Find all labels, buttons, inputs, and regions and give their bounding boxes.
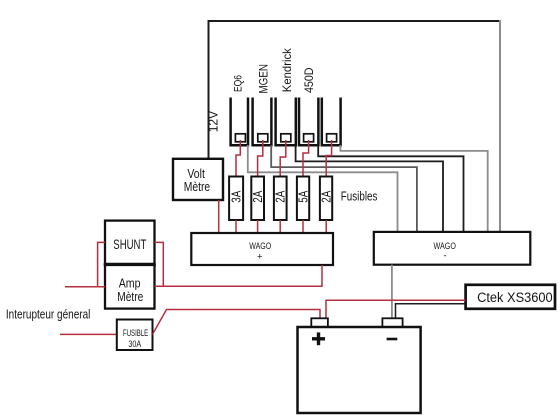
svg-text:Fusibles: Fusibles [341, 188, 378, 203]
wire: J3 return to WAGO- [296, 145, 443, 232]
svg-text:MGEN: MGEN [258, 64, 270, 94]
fuse F2 2A [250, 177, 265, 221]
wire: J5 feed to fuse F5 (red) [326, 140, 331, 177]
wire: ammeter/shunt right to WAGO+ (red) [155, 242, 323, 286]
wire: J5 return to WAGO- [340, 145, 487, 232]
socket J5 12V outlet [322, 98, 341, 146]
svg-text:EQ6: EQ6 [233, 75, 245, 92]
svg-text:Volt: Volt [187, 167, 205, 181]
svg-text:Kendrick: Kendrick [280, 47, 294, 92]
svg-text:Mètre: Mètre [117, 290, 143, 304]
svg-text:2A: 2A [273, 190, 288, 202]
fuse F3 2A [273, 177, 288, 221]
fuse F5 2A [319, 177, 334, 221]
wire: main switch feed (red) [60, 333, 117, 335]
svg-text:SHUNT: SHUNT [113, 237, 146, 252]
socket J2 12V outlet [253, 98, 272, 146]
svg-text:-: - [444, 251, 447, 262]
wire: fuse F2 to WAGO+ (red) [257, 220, 259, 233]
shunt R1 SHUNT [105, 221, 155, 265]
wire: fuse 30A to battery + (red, diagonal) [153, 310, 321, 335]
svg-text:3A: 3A [229, 190, 244, 202]
wire: WAGO- to battery - (gray) [391, 265, 393, 319]
svg-text:Ctek XS3600: Ctek XS3600 [477, 290, 553, 305]
socket J3 12V outlet [276, 98, 296, 146]
wire: charger positive to battery + (red) [326, 300, 466, 318]
wire: J4 return to WAGO- [318, 145, 463, 232]
svg-text:30A: 30A [128, 339, 141, 349]
svg-text:+: + [257, 252, 263, 263]
wire: fuse F5 to WAGO+ (red) [325, 220, 327, 233]
svg-text:FUSIBLE: FUSIBLE [123, 328, 148, 338]
wire: J3 feed to fuse F3 (red) [280, 140, 286, 177]
svg-text:5A: 5A [296, 190, 311, 202]
wire: charger negative to battery - (black) [396, 304, 466, 319]
bus WAGO+ terminal block [191, 233, 333, 265]
wire: voltmeter negative sense loop (top outer) [209, 20, 501, 232]
wire: fuse F3 to WAGO+ (red) [279, 220, 281, 233]
charger U3 Ctek XS3600 [466, 285, 555, 309]
svg-text:Mètre: Mètre [184, 180, 211, 194]
wire: J4 feed to fuse F4 (red) [303, 140, 309, 177]
wire: J1 return to WAGO- (gray) [248, 145, 398, 232]
svg-text:Amp: Amp [119, 277, 141, 291]
svg-text:2A: 2A [250, 190, 265, 202]
fuse F6 FUSIBLE 30A [117, 320, 153, 351]
wire: J2 feed to fuse F2 (red) [258, 140, 263, 177]
fuse F1 3A [229, 177, 244, 221]
wire: fuse F1 to WAGO+ (red) [235, 220, 237, 233]
voltmeter U1 Volt Metre [173, 159, 223, 200]
socket J4 12V outlet [299, 98, 318, 146]
ammeter U2 Amp Metre [104, 264, 156, 308]
svg-text:2A: 2A [319, 190, 334, 202]
battery BT1 [298, 318, 421, 413]
wire: fuse F4 to WAGO+ (red) [302, 220, 304, 233]
bus WAGO- terminal block [374, 232, 531, 265]
wire: left feed into ammeter with shunt branch (red) [65, 242, 105, 286]
fuse F4 5A [296, 177, 311, 221]
svg-text:12V: 12V [206, 110, 220, 132]
svg-text:450D: 450D [302, 67, 316, 93]
wire: J2 return to WAGO- [271, 145, 417, 232]
wire: J1 feed to fuse F1 (red) [236, 140, 240, 177]
svg-text:WAGO: WAGO [249, 241, 271, 252]
wire: voltmeter to WAGO+ (red) [218, 200, 220, 233]
svg-text:Interupteur géneral: Interupteur géneral [6, 306, 91, 321]
socket J1 12V outlet [231, 98, 248, 146]
